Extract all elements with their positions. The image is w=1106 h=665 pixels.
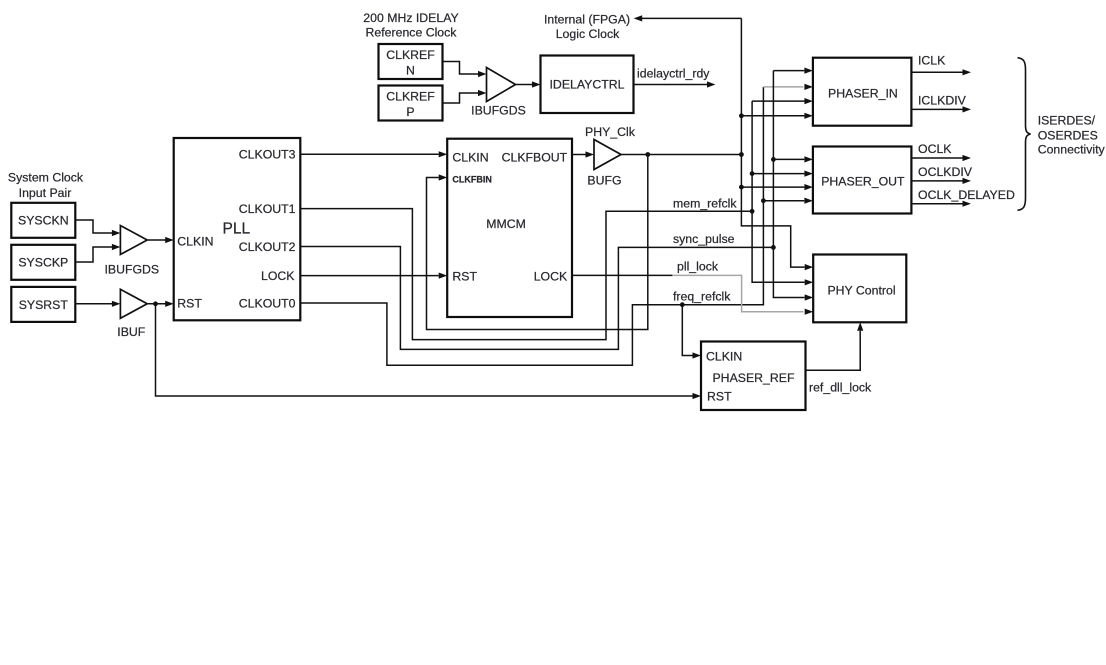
block PLL bbox=[174, 138, 301, 320]
node mem_refclk to PHASER_OUT tap bbox=[750, 171, 755, 176]
svg-text:CLKIN: CLKIN bbox=[177, 235, 213, 249]
brace ISERDES/OSERDES connectivity bbox=[1018, 58, 1106, 211]
svg-text:Logic Clock: Logic Clock bbox=[556, 27, 620, 41]
wire IBUFGDS to IDELAYCTRL bbox=[516, 81, 541, 87]
svg-text:OCLKDIV: OCLKDIV bbox=[918, 165, 973, 179]
svg-text:IBUF: IBUF bbox=[117, 325, 145, 339]
block MMCM bbox=[447, 139, 572, 317]
svg-text:SYSCKN: SYSCKN bbox=[18, 214, 69, 228]
svg-text:OCLK: OCLK bbox=[918, 142, 952, 156]
svg-text:Internal (FPGA): Internal (FPGA) bbox=[544, 13, 630, 27]
wire PLL CLKOUT0 to freq_refclk bbox=[300, 87, 763, 365]
svg-text:ref_dll_lock: ref_dll_lock bbox=[809, 381, 872, 395]
wire freq_refclk gray to PHASER_IN input 2 bbox=[763, 84, 813, 90]
wire ref_dll_lock to PHY Control bbox=[806, 322, 873, 394]
svg-text:Reference Clock: Reference Clock bbox=[366, 26, 458, 40]
svg-text:PHY Control: PHY Control bbox=[827, 283, 895, 297]
svg-text:CLKOUT2: CLKOUT2 bbox=[239, 240, 296, 254]
input pad CLKREFN bbox=[379, 44, 443, 79]
svg-text:ICLK: ICLK bbox=[918, 54, 946, 68]
wire OCLK output bbox=[911, 142, 971, 161]
wire mem_refclk to PHASER_IN input 3 bbox=[752, 98, 813, 104]
node phy_clk joins vertical bbox=[739, 152, 744, 157]
svg-text:mem_refclk: mem_refclk bbox=[673, 197, 737, 211]
node mem_refclk source junction bbox=[750, 209, 755, 214]
wire phy_clk from BUFG bbox=[621, 154, 741, 156]
block PHASER_REF bbox=[701, 342, 806, 411]
svg-text:IDELAYCTRL: IDELAYCTRL bbox=[550, 78, 625, 92]
input pad CLKREFP bbox=[379, 86, 443, 121]
label System Clock Input Pair bbox=[8, 171, 84, 201]
wire phy_clk vertical to PHY Control bbox=[741, 18, 813, 270]
svg-text:OSERDES: OSERDES bbox=[1038, 128, 1098, 142]
wire sync_pulse to PHASER_IN input 1 bbox=[773, 68, 813, 74]
wire internal logic clock arrow (from phy_clk net) bbox=[634, 15, 742, 21]
svg-text:idelayctrl_rdy: idelayctrl_rdy bbox=[637, 67, 710, 81]
svg-text:CLKIN: CLKIN bbox=[452, 151, 488, 165]
svg-text:SYSRST: SYSRST bbox=[19, 298, 69, 312]
wire SYSCKP to IBUFGDS bbox=[75, 244, 120, 262]
wire PLL CLKOUT2 to sync_pulse bbox=[300, 247, 773, 350]
svg-text:LOCK: LOCK bbox=[534, 270, 568, 284]
block PHY Control bbox=[813, 255, 906, 323]
wire SYSCKN to IBUFGDS bbox=[75, 220, 120, 236]
svg-text:CLKOUT1: CLKOUT1 bbox=[239, 202, 296, 216]
input pad SYSCKP bbox=[11, 245, 75, 280]
node phy_clk to PHASER_OUT tap bbox=[739, 185, 744, 190]
svg-text:sync_pulse: sync_pulse bbox=[673, 232, 735, 246]
wire phy_clk to PHASER_IN input 4 bbox=[741, 113, 813, 119]
node phy_clk to PHASER_IN tap bbox=[739, 113, 744, 118]
svg-text:PHASER_REF: PHASER_REF bbox=[712, 371, 794, 385]
node freq_refclk to PHASER_OUT tap bbox=[761, 198, 766, 203]
node sync_pulse source junction bbox=[771, 245, 776, 250]
svg-text:Connectivity: Connectivity bbox=[1038, 143, 1106, 157]
node freq_refclk junction bbox=[680, 302, 685, 307]
label 200 MHz IDELAY Reference Clock bbox=[363, 11, 458, 40]
svg-text:PHY_Clk: PHY_Clk bbox=[585, 125, 636, 139]
wire MMCM CLKFBOUT to BUFG bbox=[572, 151, 594, 157]
svg-text:freq_refclk: freq_refclk bbox=[673, 290, 731, 304]
wire sync_pulse vertical net bbox=[773, 71, 813, 301]
svg-text:SYSCKP: SYSCKP bbox=[18, 256, 68, 270]
svg-text:P: P bbox=[406, 105, 414, 119]
svg-text:IBUFGDS: IBUFGDS bbox=[104, 263, 159, 277]
wire pll_lock black segment bbox=[572, 274, 672, 276]
label Internal (FPGA) Logic Clock bbox=[544, 13, 630, 42]
block IDELAYCTRL bbox=[541, 56, 634, 114]
svg-text:IBUFGDS: IBUFGDS bbox=[471, 104, 526, 118]
wire phy_clk to PHASER_OUT input 3 bbox=[741, 184, 813, 190]
svg-text:CLKFBOUT: CLKFBOUT bbox=[502, 151, 568, 165]
svg-text:N: N bbox=[406, 64, 415, 78]
wire PLL CLKOUT1 to mem_refclk bbox=[300, 209, 752, 340]
wire CLKREFP to IBUFGDS bbox=[443, 90, 487, 103]
wire OCLKDIV output bbox=[911, 165, 972, 184]
wire sync_pulse to PHASER_OUT input 1 bbox=[773, 156, 813, 162]
svg-text:RST: RST bbox=[452, 270, 477, 284]
input pad SYSCKN bbox=[11, 203, 75, 238]
node junction on IBUF output bbox=[153, 301, 158, 306]
node feedback tap bbox=[645, 152, 650, 157]
block PHASER_IN bbox=[813, 58, 912, 126]
wire ICLK output bbox=[911, 54, 971, 76]
wire IBUF to PLL RST bbox=[147, 301, 174, 307]
wire mem_refclk vertical net bbox=[752, 101, 813, 285]
svg-text:CLKFBIN: CLKFBIN bbox=[452, 174, 492, 184]
svg-text:System Clock: System Clock bbox=[8, 171, 84, 185]
wire mem_refclk to PHASER_OUT input 2 bbox=[752, 171, 813, 177]
node sync_pulse to PHASER_OUT tap bbox=[771, 157, 776, 162]
wire feedback to MMCM CLKFBIN bbox=[427, 155, 648, 330]
svg-text:PHASER_IN: PHASER_IN bbox=[828, 86, 898, 100]
svg-text:CLKIN: CLKIN bbox=[706, 350, 742, 364]
wire ICLKDIV output bbox=[911, 94, 971, 113]
block PHASER_OUT bbox=[813, 147, 912, 214]
svg-text:RST: RST bbox=[707, 389, 732, 403]
svg-text:MMCM: MMCM bbox=[486, 217, 526, 231]
buffer BUFG bbox=[585, 125, 636, 188]
wire system reset to PHASER_REF RST bbox=[156, 304, 702, 399]
wire PLL LOCK to MMCM RST bbox=[300, 273, 447, 279]
svg-text:PLL: PLL bbox=[223, 221, 251, 238]
svg-text:CLKOUT3: CLKOUT3 bbox=[239, 148, 296, 162]
svg-text:ISERDES/: ISERDES/ bbox=[1038, 114, 1096, 128]
wire OCLK_DELAYED output bbox=[911, 188, 1015, 207]
svg-text:CLKOUT0: CLKOUT0 bbox=[239, 296, 296, 310]
wire SYSRST to IBUF bbox=[75, 301, 120, 307]
wire CLKREFN to IBUFGDS bbox=[443, 62, 487, 78]
svg-text:200 MHz IDELAY: 200 MHz IDELAY bbox=[363, 11, 458, 25]
buffer IBUF bbox=[117, 289, 147, 339]
svg-text:ICLKDIV: ICLKDIV bbox=[918, 94, 967, 108]
svg-text:BUFG: BUFG bbox=[587, 174, 621, 188]
wire freq_refclk to PHASER_REF CLKIN bbox=[682, 305, 701, 359]
wire IBUFGDS to PLL CLKIN bbox=[147, 237, 174, 243]
wire idelayctrl_rdy output bbox=[634, 67, 716, 88]
svg-text:OCLK_DELAYED: OCLK_DELAYED bbox=[918, 188, 1015, 202]
svg-text:LOCK: LOCK bbox=[261, 269, 295, 283]
svg-text:CLKREF: CLKREF bbox=[386, 48, 435, 62]
svg-text:Input Pair: Input Pair bbox=[19, 186, 72, 200]
input pad SYSRST bbox=[11, 287, 75, 322]
wire freq_refclk to PHASER_OUT input 4 bbox=[763, 198, 813, 204]
wire pll_lock gray segment to PHY Control bbox=[672, 275, 813, 314]
svg-text:PHASER_OUT: PHASER_OUT bbox=[821, 175, 905, 189]
svg-text:pll_lock: pll_lock bbox=[677, 260, 719, 274]
buffer IBUFGDS (top) bbox=[471, 68, 526, 118]
svg-text:CLKREF: CLKREF bbox=[386, 90, 435, 104]
svg-text:RST: RST bbox=[177, 296, 202, 310]
wire PLL CLKOUT3 to MMCM CLKIN bbox=[300, 151, 447, 157]
buffer IBUFGDS (left) bbox=[104, 226, 159, 277]
